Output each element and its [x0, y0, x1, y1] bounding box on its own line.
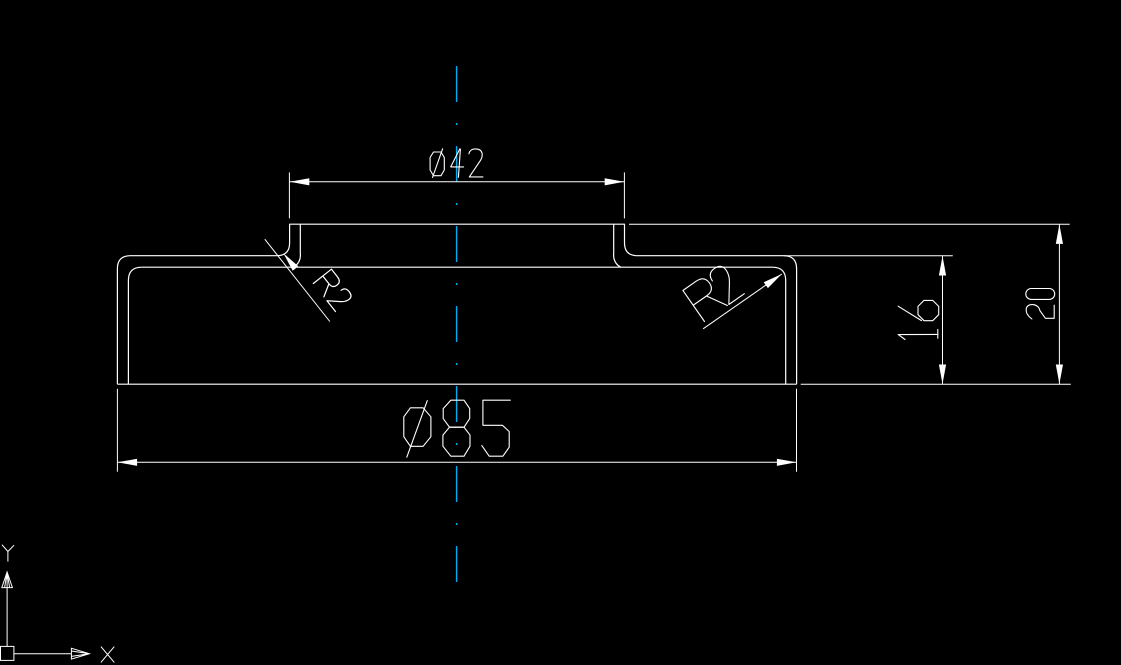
arrowhead Ø85 left — [118, 459, 138, 466]
part outer profile (flange with central boss) — [117, 224, 796, 384]
text Ø85 : diameter symbol — [404, 408, 431, 447]
arrowhead 20 bottom — [1056, 365, 1063, 385]
text R2 left (rotated 51.7deg) — [313, 269, 353, 311]
arrowhead 16 bottom — [939, 365, 946, 385]
leader line R2 left — [265, 239, 330, 321]
dim 20 dimension line — [1058, 224, 1060, 384]
dim Ø85 extension line left — [116, 389, 118, 472]
UCS icon: X label — [101, 647, 114, 663]
dim Ø42 extension line right — [623, 172, 625, 218]
UCS icon: Y label — [2, 545, 14, 562]
arrowhead R2 right leader — [764, 274, 782, 288]
UCS icon: X axis line — [14, 653, 72, 655]
text Ø42 : diameter symbol — [430, 152, 444, 176]
boss inner left vertical with fillet — [293, 224, 300, 267]
part bottom edge — [117, 383, 796, 385]
text 16 (rotated) : digit 1 — [898, 333, 938, 335]
text Ø85 : digit 8 — [443, 400, 470, 427]
UCS icon: origin box — [1, 646, 14, 660]
arrowhead Ø42 left — [290, 178, 310, 185]
inner contour right vertical with fillet — [772, 267, 785, 384]
text Ø85 : digit 5 — [482, 400, 511, 456]
arrowhead Ø42 right — [605, 178, 625, 185]
dim Ø42 dimension line — [290, 181, 625, 183]
UCS icon: Y axis arrow cone — [2, 572, 13, 588]
dim Ø85 extension line right — [796, 389, 798, 472]
centerline (blue dash-dot vertical axis) — [456, 66, 458, 582]
boss inner right vertical with fillet — [614, 224, 621, 267]
leader line R2 right — [703, 274, 782, 329]
arrowhead 16 top — [939, 256, 946, 276]
arrowhead R2 left leader — [283, 253, 298, 271]
shared bottom extension line for 16 and 20 — [801, 383, 1071, 385]
text 20 (rotated) : digit 0 — [1026, 289, 1055, 300]
arrowhead Ø85 right — [777, 459, 797, 466]
inner contour left vertical with fillet — [128, 267, 141, 384]
dim Ø85 dimension line — [118, 461, 797, 463]
dim Ø42 extension line left — [288, 172, 290, 218]
dim 16 dimension line — [942, 256, 944, 384]
text R2 right (rotated -34.9deg) — [683, 263, 744, 322]
dim 16 extension line top — [784, 255, 953, 257]
arrowhead 20 top — [1056, 224, 1063, 244]
inner contour horizontal line (full width) — [142, 266, 773, 268]
dim 20 extension line top — [629, 223, 1070, 225]
text 16 (rotated) : digit 6 — [898, 306, 921, 320]
UCS icon: X axis arrow cone — [71, 648, 89, 659]
text Ø42 : digit 4 — [451, 149, 464, 167]
UCS icon: Y axis line — [6, 588, 8, 647]
text Ø42 : digit 2 — [469, 149, 483, 177]
text 20 (rotated) : digit 2 — [1026, 305, 1054, 319]
